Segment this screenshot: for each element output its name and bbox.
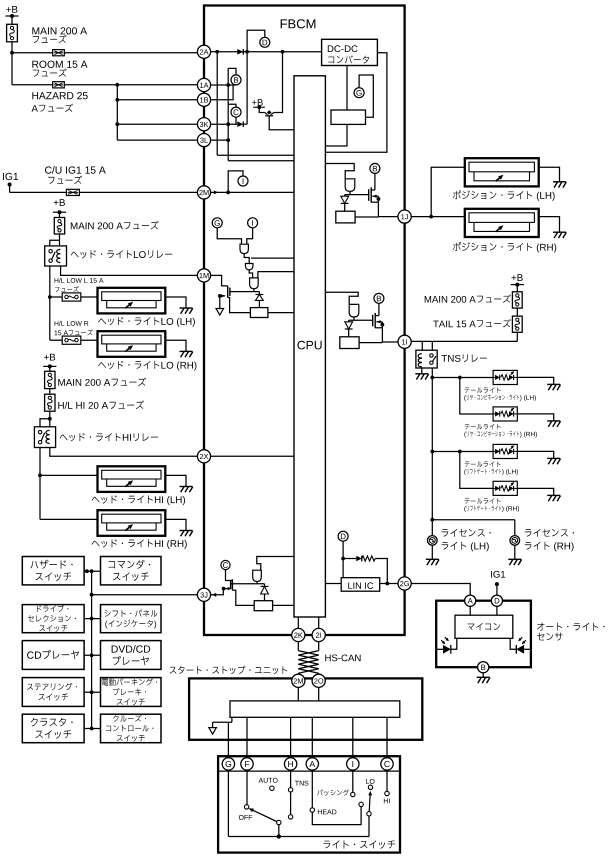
connector 3J xyxy=(197,588,210,601)
wire G to gate1 xyxy=(217,228,241,244)
connector 2M (start-stop) xyxy=(292,674,305,687)
connector 2X xyxy=(197,450,210,463)
connector 2I xyxy=(312,628,325,641)
resistor (3J driver) xyxy=(254,601,272,611)
lamp: headlight HI (LH) xyxy=(98,466,166,492)
gate buffer 2 xyxy=(245,264,253,270)
mosfet (1M driver) xyxy=(229,288,231,297)
fuse C/U IG1 15 A (inline) xyxy=(66,189,79,195)
wire gate to mosfet xyxy=(349,319,373,321)
wire 2M to CPU xyxy=(210,191,294,193)
wire G internal xyxy=(227,770,229,836)
resistor (DC-DC regulator) xyxy=(331,110,366,124)
net D bracket xyxy=(247,30,265,52)
wire I to passing contact xyxy=(352,770,354,792)
connector 2A xyxy=(197,45,210,58)
wire fuse to HI relay xyxy=(49,411,51,427)
label H/L LOW R 15 A fuse xyxy=(55,321,59,326)
wire license RH to ground xyxy=(514,545,516,559)
wire 1J to position lights xyxy=(411,216,465,218)
box steering switch xyxy=(22,678,84,707)
net B circle xyxy=(370,163,380,173)
box DC-DC converter xyxy=(322,39,378,65)
diode and resistor to 2G xyxy=(343,558,356,560)
net B circle xyxy=(374,293,384,303)
wire DC-DC out to CPU xyxy=(325,53,387,153)
label MAIN 200 A fuse xyxy=(32,27,39,34)
box shift panel indicator xyxy=(101,605,162,633)
ground (position RH) xyxy=(553,231,566,233)
lamp: position light (LH) xyxy=(465,158,539,186)
gate buffer (3J driver) xyxy=(253,570,262,581)
wire fuse to 2A with junction xyxy=(11,42,13,85)
wire to 3K xyxy=(117,123,198,125)
label tail light 3 xyxy=(465,462,470,467)
photodiode right xyxy=(524,648,531,650)
label headlight LO (LH) xyxy=(98,318,106,324)
connector 2G xyxy=(398,577,411,590)
relay: headlight HI relay xyxy=(34,427,55,448)
contact OFF xyxy=(244,805,248,809)
node IG1 (sensor) xyxy=(490,571,493,578)
CPU box xyxy=(294,76,325,617)
wire fuse to headlight LO LH xyxy=(81,296,98,298)
connector 1I xyxy=(398,335,411,348)
net D circle (LIN) xyxy=(338,531,348,541)
wire TNS switch to tail light bus xyxy=(431,368,433,378)
wire 2G to sensor A xyxy=(411,584,470,596)
wire branch to relay switch xyxy=(50,240,60,246)
bus between switch boxes xyxy=(91,571,93,728)
wire I to gate1 xyxy=(247,228,253,244)
diode xyxy=(348,320,350,322)
box drive selection switch xyxy=(22,605,84,633)
node +B (FBCM internal) xyxy=(252,100,257,105)
diode (3J driver) xyxy=(264,584,266,587)
wire DC-DC bottom to resistor xyxy=(346,66,348,111)
wire 3K with diode xyxy=(210,123,237,125)
lamp: headlight LO (LH) xyxy=(98,288,166,314)
connector 2O (start-stop) xyxy=(312,674,325,687)
label TNS relay xyxy=(442,355,448,362)
tail light bus xyxy=(432,377,493,379)
wire CPU to gate (3J driver) xyxy=(257,557,294,571)
net C bracket xyxy=(228,104,236,107)
lamp: headlight HI (RH) xyxy=(98,510,166,536)
box cruise control switch xyxy=(101,714,162,743)
fuse TAIL 15 A (vertical) xyxy=(512,316,522,332)
gate buffer xyxy=(349,304,359,317)
tail light 2: (リヤ・コンビネーション・ライト) (RH) xyxy=(493,407,517,421)
wire A to microcomputer xyxy=(469,606,471,615)
label headlight LO (RH) xyxy=(98,362,106,368)
label license light LH xyxy=(442,529,449,537)
diode on 2A rail xyxy=(237,49,243,55)
label headlight LO relay xyxy=(71,252,79,258)
connector 3K xyxy=(197,118,210,131)
net I bracket (2M) xyxy=(226,191,230,195)
ground (headlight LO RH) xyxy=(180,350,193,352)
resistor xyxy=(340,337,359,349)
ground (headlight HI LH) xyxy=(180,486,193,488)
node +B (TNS) xyxy=(511,275,516,280)
ground (position LH) xyxy=(553,181,566,183)
wire to LOW L fuse xyxy=(50,296,62,298)
riser to LO with arrowhead xyxy=(368,816,370,837)
wire bar to arrow-ground and G xyxy=(231,717,233,722)
wire license LH to ground xyxy=(431,545,433,559)
mosfet body to 3J xyxy=(228,587,232,590)
fuse MAIN 200 A (vertical, TNS) xyxy=(512,292,522,308)
label headlight HI (LH) xyxy=(92,497,100,503)
wire lamp to ground xyxy=(165,475,186,486)
wire resistor to CPU xyxy=(273,604,294,606)
wire 1I / TAIL fuse to TNS relay xyxy=(516,332,518,341)
label headlight HI (RH) xyxy=(92,541,100,547)
fuse ROOM 15 A (inline) xyxy=(53,50,65,56)
label MAIN 200 A fuse xyxy=(58,379,65,386)
wire resistor to CPU xyxy=(325,124,347,146)
ground (headlight HI RH) xyxy=(180,530,193,532)
wire to 3L xyxy=(117,139,198,141)
box microcomputer xyxy=(455,615,513,638)
fuse MAIN 200 A (vertical, LO relay) xyxy=(54,218,64,235)
resistor (1M driver) xyxy=(250,308,268,318)
connector A (sensor) xyxy=(465,595,476,606)
lamp: headlight LO (RH) xyxy=(98,331,166,357)
wire 1A xyxy=(210,84,236,86)
photodiode left xyxy=(436,648,443,650)
label headlight HI relay xyxy=(60,434,68,440)
wire 1M to mosfet drain xyxy=(210,275,227,286)
connector 2M xyxy=(197,186,210,199)
net C circle xyxy=(231,107,241,117)
wire resistor to CPU xyxy=(268,312,294,314)
wire H to TNS contacts xyxy=(290,770,292,788)
box LIN IC xyxy=(341,578,380,592)
label start-stop unit xyxy=(170,667,177,674)
connector 1J xyxy=(398,210,411,223)
wire TNS coil to ground xyxy=(421,368,423,374)
FBCM module box xyxy=(204,6,405,636)
bus B/C nets xyxy=(227,68,229,160)
wire C to HI contact xyxy=(386,770,388,791)
gate buffer xyxy=(345,179,355,192)
ground (license RH) xyxy=(508,558,521,560)
net G circle (1M driver) xyxy=(212,218,222,228)
wire to 1B xyxy=(117,99,198,101)
lamp: position light (RH) xyxy=(465,209,539,237)
wire CPU to gate xyxy=(325,292,358,304)
wire CPU to gate2 xyxy=(251,257,294,259)
box cluster switch xyxy=(22,714,84,743)
lamp: license light (RH) xyxy=(510,536,520,546)
label H/L LOW L 15 A fuse xyxy=(55,278,59,283)
tail light 4: (リフトゲート・ライト) (RH) xyxy=(493,481,517,495)
ground (tail light 4) xyxy=(547,494,560,496)
wire to headlight HI RH xyxy=(40,518,98,520)
connector 1M xyxy=(197,269,210,282)
HS-CAN twisted pair xyxy=(297,642,299,651)
ground (tail light 3) xyxy=(547,457,560,459)
wire net C to 3K xyxy=(235,117,237,124)
label HAZARD 25 A fuse xyxy=(32,92,38,99)
bus to 1B 3K 3L xyxy=(116,85,118,140)
net G bracket xyxy=(359,75,373,117)
mosfet xyxy=(368,189,370,201)
mosfet channel to resistor xyxy=(228,298,251,313)
gate buffer 1 xyxy=(240,244,248,253)
label tail light 4 xyxy=(465,499,470,504)
label tail light 1 xyxy=(465,388,470,393)
label MAIN 200 A fuse (TNS) xyxy=(425,296,431,303)
box DVD/CD player xyxy=(101,641,162,670)
terminal H (light switch) xyxy=(284,758,296,770)
wire position LH to ground xyxy=(539,167,560,182)
net D circle xyxy=(260,37,270,47)
wire D to LIN IC xyxy=(342,541,344,578)
label H/L HI 20 A fuse xyxy=(58,402,63,409)
wires bar to light switch xyxy=(246,717,248,757)
wire +B to fuse xyxy=(11,16,13,24)
selector lever xyxy=(277,820,281,824)
connector D (sensor) xyxy=(491,595,502,606)
mosfet body/source to arrow-ground xyxy=(221,294,225,297)
wire gate to mosfet xyxy=(345,194,369,196)
wire 3L xyxy=(210,139,228,141)
wire 2X to CPU xyxy=(210,455,294,457)
node +B (headlight LO) xyxy=(54,200,59,205)
wire position RH to ground xyxy=(539,217,560,233)
net B bracket xyxy=(228,68,236,75)
label AUTO and contact xyxy=(259,778,264,783)
wire F to OFF contact xyxy=(246,770,248,804)
wire CPU to 2K xyxy=(297,617,299,628)
wire CPU to gate xyxy=(325,164,354,179)
diode xyxy=(344,195,346,197)
relay: TNS relay xyxy=(416,350,437,368)
wire CPU to LIN IC xyxy=(325,583,341,585)
arrowhead to 3J xyxy=(212,593,217,597)
ground (sensor) xyxy=(477,676,490,678)
ground (tail light 1) xyxy=(547,383,560,385)
resistor xyxy=(336,211,355,223)
fuse MAIN 200 A (vertical) xyxy=(7,24,18,42)
wire 2A to rail y155 xyxy=(216,52,218,155)
label microcomputer xyxy=(467,624,474,631)
net C circle (3J driver) xyxy=(221,560,230,569)
terminal C (light switch) xyxy=(381,758,393,770)
wire gate3 to mosfet gate xyxy=(253,289,255,292)
diode (1M driver) xyxy=(258,292,260,295)
box start-stop unit xyxy=(189,678,422,739)
connector 3L xyxy=(197,134,210,147)
label position light RH xyxy=(453,242,461,251)
terminal F (light switch) xyxy=(241,758,253,770)
wire to 1A xyxy=(12,84,198,86)
wire mosfet to connector xyxy=(378,216,398,218)
lamp: license light (LH) xyxy=(428,536,438,546)
wire fuse to relay xyxy=(59,234,61,246)
gate buffer 3 xyxy=(250,278,259,289)
box hazard switch xyxy=(22,557,84,585)
fuse HAZARD 25 A (inline) xyxy=(53,82,65,88)
wire bus to 3J xyxy=(92,594,198,596)
connector 1B xyxy=(197,93,210,106)
node +B (battery, top left) xyxy=(6,7,11,12)
net B circle xyxy=(231,75,241,85)
header line (light switch) xyxy=(218,770,400,772)
box commander switch xyxy=(101,557,162,585)
arrowhead 2M wire xyxy=(214,191,219,195)
node IG1 (left) xyxy=(2,173,5,180)
wires 2M 2O to internal bar xyxy=(297,687,299,701)
connector B (sensor) xyxy=(478,662,489,673)
mosfet xyxy=(372,315,374,327)
wire HEAD to LO link xyxy=(312,807,361,825)
tail light 3: (リフトゲート・ライト) (LH) xyxy=(493,444,517,458)
terminal A (light switch) xyxy=(306,758,318,770)
wire A to HEAD contact xyxy=(311,770,313,808)
wire LIN IC to 2G xyxy=(380,583,399,585)
wire tail light 4 to ground xyxy=(517,488,553,495)
wire to switch G xyxy=(227,722,229,757)
tail light 1: (リヤ・コンビネーション・ライト) (LH) xyxy=(493,370,517,384)
wire mosfet to connector xyxy=(382,341,402,343)
wire lamp to ground xyxy=(165,519,186,530)
label tail light 2 xyxy=(465,424,470,429)
wire 1B joins net B xyxy=(210,85,233,100)
bottom bus (light switch) xyxy=(228,836,369,838)
internal bar (start-stop unit) xyxy=(230,701,400,717)
net I circle (1M driver) xyxy=(248,218,258,228)
wire gate1 to gate2 xyxy=(244,254,249,264)
wire D to microcomputer xyxy=(496,606,498,615)
arrow ground (start-stop) xyxy=(209,728,217,735)
label FBCM xyxy=(281,19,287,28)
wire relay switch down xyxy=(49,266,51,340)
wire tail light 3 to ground xyxy=(517,451,553,458)
label LIN IC xyxy=(348,582,352,588)
box electric parking brake switch xyxy=(101,678,162,707)
label license light RH xyxy=(525,529,532,537)
relay: headlight LO relay xyxy=(45,246,67,266)
wire lamp to ground xyxy=(165,297,186,308)
fuse H/L LOW R 15 A xyxy=(62,336,81,344)
label HS-CAN xyxy=(325,655,330,662)
label position light LH xyxy=(453,190,461,199)
label auto light sensor xyxy=(537,622,544,630)
wire relay coil to 1M xyxy=(61,266,198,275)
wire fuse to headlight LO RH xyxy=(81,339,98,341)
net I circle (2M) xyxy=(238,176,248,186)
wire to license lights xyxy=(430,518,434,522)
diode-pair OR symbol xyxy=(259,107,264,112)
node +B (headlight HI) xyxy=(44,355,49,360)
ground (license LH) xyxy=(426,558,439,560)
mosfet channel to resistor (3J driver) xyxy=(232,590,254,605)
wire relay switch to HI lamps xyxy=(39,448,41,520)
wire lamp to ground xyxy=(165,340,186,351)
wire OR output to CPU xyxy=(269,116,294,130)
fuse H/L HI 20 A (vertical) xyxy=(45,394,55,411)
wire 3K diode to 2A rail xyxy=(246,52,248,124)
wire to headlight HI LH xyxy=(40,474,98,476)
wire 2A rail xyxy=(210,51,321,53)
wire CPU to 2I xyxy=(318,617,320,628)
fuse MAIN 200 A (vertical, HI) xyxy=(45,371,55,388)
wire to LOW R fuse xyxy=(50,339,62,341)
wire CPU to gate3 xyxy=(258,272,294,278)
wire B to ground xyxy=(482,673,484,678)
terminal G (light switch) xyxy=(222,758,234,770)
box light switch xyxy=(218,756,400,852)
label CPU xyxy=(297,341,305,350)
label light switch xyxy=(323,841,330,849)
connector 2K xyxy=(292,628,305,641)
label LO and contact xyxy=(366,779,369,784)
label DC-DC converter xyxy=(328,45,334,52)
terminal I (light switch) xyxy=(347,758,359,770)
ground (headlight LO LH) xyxy=(180,307,193,309)
wire to 2A xyxy=(12,52,198,54)
label TAIL 15 A fuse xyxy=(433,321,438,328)
arrow ground (1M driver) xyxy=(216,309,224,316)
label ROOM 15 A fuse xyxy=(32,61,38,68)
box CD player xyxy=(22,641,84,670)
wire IG1 to 2M xyxy=(10,191,198,193)
net G circle xyxy=(354,88,364,98)
label MAIN 200 A fuse xyxy=(71,222,78,229)
wire gate2 to gate3 xyxy=(249,270,252,278)
fuse H/L LOW L 15 A xyxy=(62,293,81,301)
wire tail light 1 to ground xyxy=(517,377,553,384)
mosfet (3J driver) xyxy=(230,581,232,588)
ground (tail light 2) xyxy=(547,420,560,422)
ground (TNS relay) xyxy=(415,373,428,375)
wire C to mosfet drain xyxy=(226,570,233,581)
box auto light sensor xyxy=(436,601,531,668)
label passing xyxy=(317,790,323,796)
connector 1A xyxy=(197,78,210,91)
wire gate to mosfet xyxy=(256,582,258,584)
wire tail light 2 to ground xyxy=(517,414,553,421)
label C/U IG1 15 A fuse xyxy=(45,166,52,173)
wire relay coil to 2X xyxy=(50,448,198,457)
